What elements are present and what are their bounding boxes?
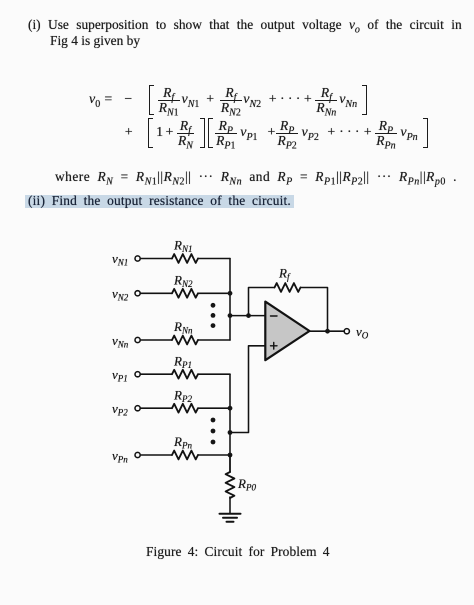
junction at output node bbox=[325, 329, 330, 334]
where line bbox=[55, 169, 457, 185]
node vP2 input terminal bbox=[112, 401, 140, 418]
svg-text:Rf: Rf bbox=[278, 266, 291, 283]
node vO output terminal bbox=[344, 324, 369, 341]
wire bbox=[198, 454, 230, 456]
node vNn input terminal bbox=[112, 333, 140, 350]
resistor RPn bbox=[172, 434, 198, 459]
junction at feedback tap bbox=[246, 313, 251, 318]
wire bbox=[198, 339, 230, 341]
svg-text:RN1: RN1 bbox=[173, 238, 192, 255]
ground bbox=[220, 514, 241, 522]
svg-text:vN1: vN1 bbox=[112, 251, 128, 268]
feedback wire up from inverting tap bbox=[249, 288, 275, 316]
junction on P bus at noninverting tap bbox=[228, 430, 233, 435]
wire op-amp output bbox=[310, 330, 345, 332]
wire from vPn junction down to RP0 bbox=[229, 455, 231, 472]
wire bbox=[198, 292, 230, 294]
op-amp U1 bbox=[265, 302, 309, 361]
svg-text:RP2: RP2 bbox=[173, 388, 192, 405]
wire to inverting input bbox=[230, 315, 265, 317]
junction on N bus at inverting tap bbox=[228, 313, 233, 318]
junction on N bus at vN2 bbox=[228, 291, 233, 296]
node vN2 input terminal bbox=[112, 286, 140, 303]
svg-text:RP0: RP0 bbox=[237, 476, 256, 493]
resistor RP1 bbox=[172, 354, 198, 379]
resistor RNn bbox=[172, 319, 198, 344]
junction on P bus at vPn bbox=[228, 453, 233, 458]
figure caption bbox=[146, 544, 330, 560]
feedback wire down to output bbox=[301, 288, 328, 332]
svg-text:RP1: RP1 bbox=[173, 354, 192, 371]
highlighted item (ii) bbox=[25, 195, 294, 208]
wire to noninverting input bbox=[230, 346, 265, 433]
wire to ground bbox=[229, 497, 231, 514]
junction on P bus at vP2 bbox=[228, 406, 233, 411]
resistor RP2 bbox=[172, 388, 198, 413]
node vP1 input terminal bbox=[112, 367, 140, 384]
svg-text:RNn: RNn bbox=[173, 319, 193, 336]
wire bbox=[140, 339, 172, 341]
ellipsis dots P inputs bbox=[211, 418, 216, 445]
svg-text:vP1: vP1 bbox=[112, 367, 128, 384]
wire bbox=[140, 292, 172, 294]
node vPn input terminal bbox=[112, 448, 140, 465]
wire bbox=[198, 407, 230, 409]
svg-text:RPn: RPn bbox=[173, 434, 192, 451]
resistor RN1 bbox=[172, 238, 198, 263]
paragraph (i) line 1 bbox=[28, 17, 462, 33]
resistor RN2 bbox=[172, 273, 198, 298]
wire P summing bus bbox=[229, 374, 231, 472]
wire bbox=[140, 373, 172, 375]
equation line 1 bbox=[89, 85, 367, 115]
paragraph (i) line 2 bbox=[50, 33, 140, 49]
equation line 2 bbox=[125, 118, 428, 148]
svg-text:vO: vO bbox=[356, 324, 369, 341]
node vN1 input terminal bbox=[112, 251, 140, 268]
svg-text:RN2: RN2 bbox=[173, 273, 193, 290]
ellipsis dots N inputs bbox=[211, 303, 216, 328]
resistor Rf bbox=[275, 266, 301, 292]
wire bbox=[140, 258, 172, 260]
svg-text:vNn: vNn bbox=[112, 333, 129, 350]
svg-text:vP2: vP2 bbox=[112, 401, 128, 418]
resistor RP0 bbox=[226, 472, 257, 498]
wire N summing bus bbox=[229, 259, 231, 341]
wire bbox=[140, 454, 172, 456]
svg-text:vN2: vN2 bbox=[112, 286, 129, 303]
svg-text:vPn: vPn bbox=[112, 448, 128, 465]
wire bbox=[140, 407, 172, 409]
wire bbox=[198, 258, 230, 260]
wire bbox=[198, 373, 230, 375]
